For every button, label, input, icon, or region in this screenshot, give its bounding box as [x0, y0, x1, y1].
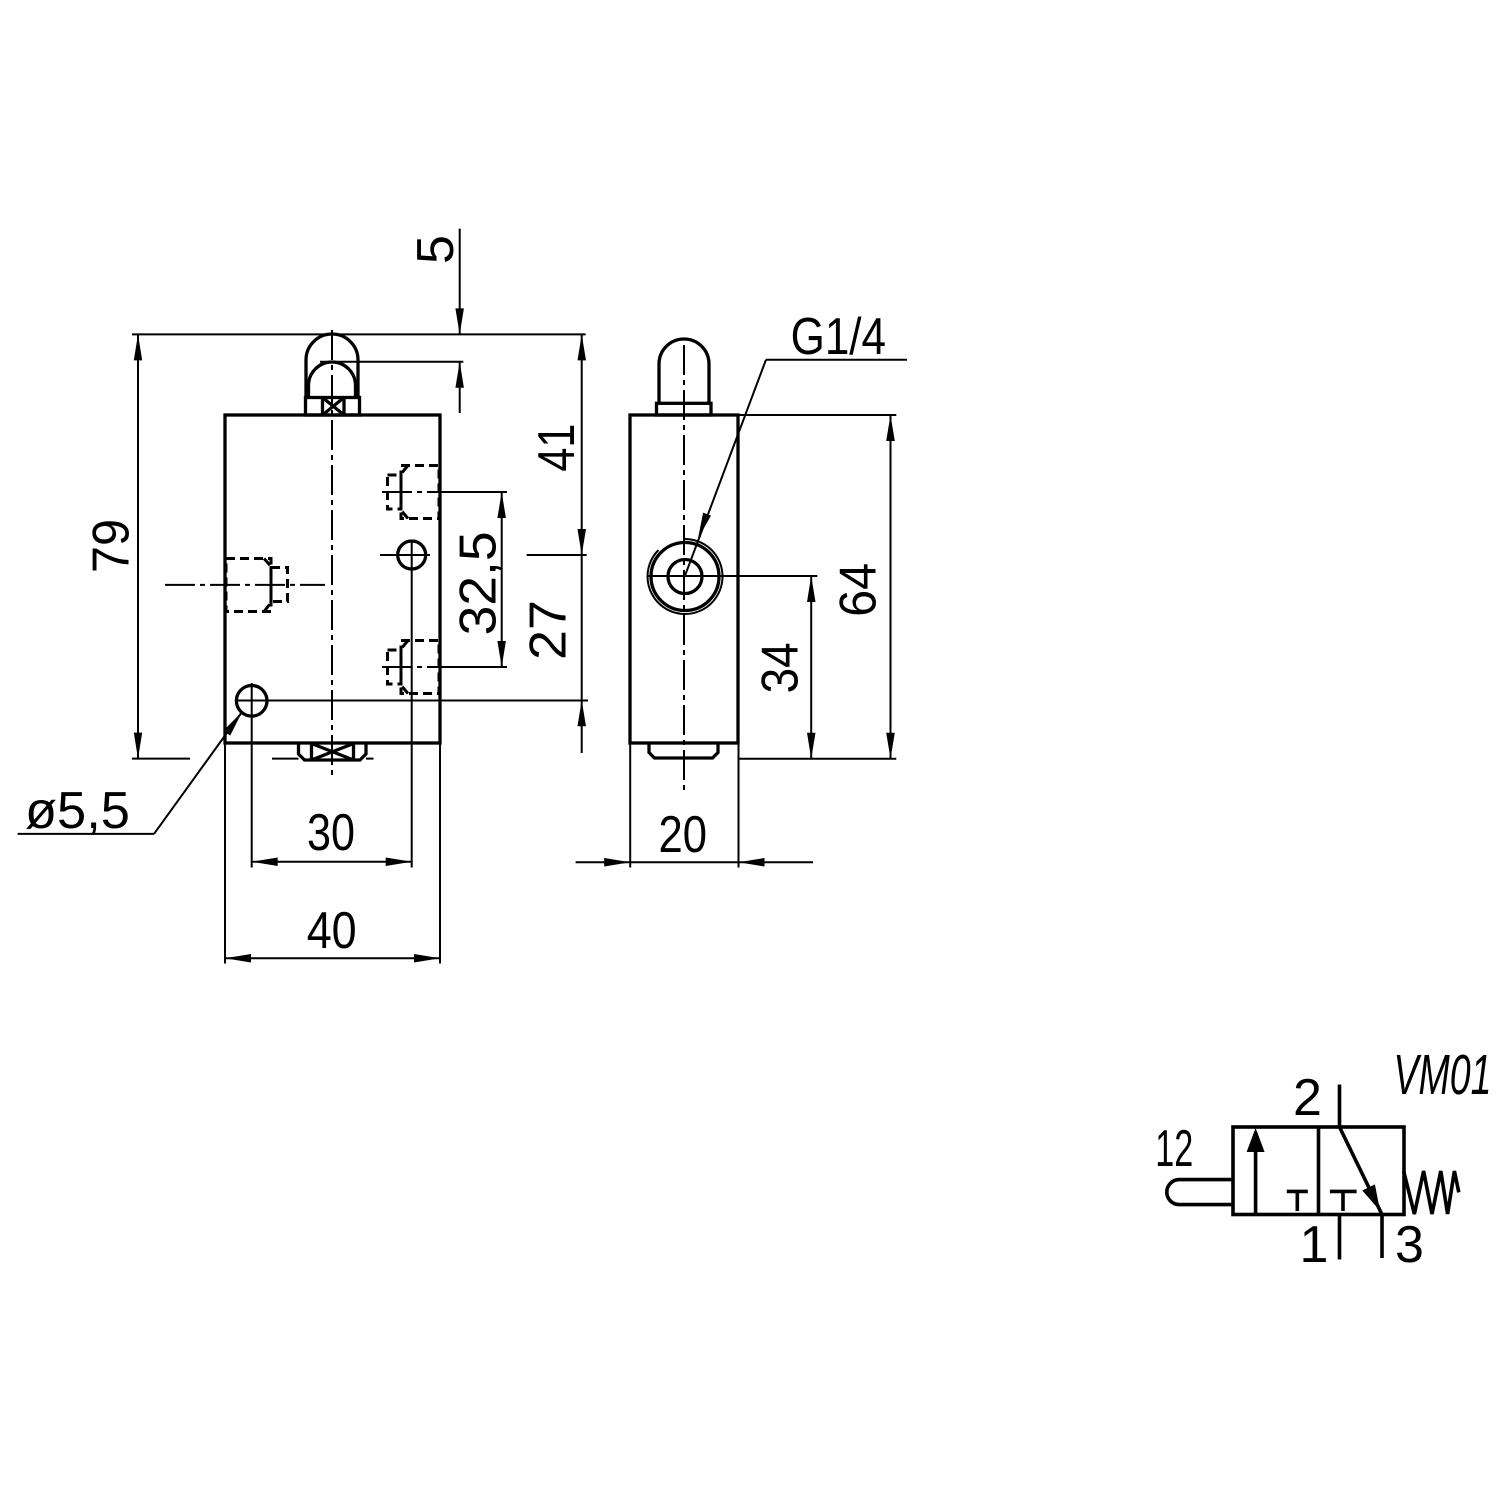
left hidden port inner box	[271, 568, 288, 602]
valve symbol plunger actuator	[1167, 1180, 1233, 1205]
valve symbol left square blocked port T	[1287, 1190, 1308, 1194]
front small hole circle	[398, 541, 426, 569]
side bottom collar	[649, 744, 718, 759]
svg-text:20: 20	[659, 806, 708, 864]
front bottom collar side stubs	[272, 758, 299, 760]
valve symbol right square diagonal flow path 2-3	[1340, 1127, 1383, 1215]
dimension 41/27 extension y=555	[527, 554, 587, 556]
right port top centerline / 32.5 extension	[382, 491, 441, 493]
valve symbol port 2 line	[1338, 1085, 1342, 1128]
side port horizontal centerline / 34 extension	[648, 575, 817, 577]
mounting hole horizontal line / 27 extension	[236, 700, 588, 702]
front plunger collar	[306, 398, 360, 416]
right hidden port top chamfers	[400, 466, 408, 476]
dimension 20 extension lines	[629, 744, 631, 868]
svg-text:G1/4: G1/4	[791, 308, 886, 366]
svg-text:12: 12	[1155, 1120, 1193, 1178]
svg-text:ø5,5: ø5,5	[25, 782, 130, 840]
top extension line y=334	[132, 333, 586, 335]
right hidden port top outer box	[401, 466, 439, 519]
front plunger outer dome	[306, 334, 358, 398]
front bottom collar X-box	[310, 744, 313, 761]
dimension 30 line	[252, 861, 412, 863]
dimension 5 line upper	[459, 229, 461, 335]
svg-text:3: 3	[1395, 1216, 1424, 1274]
side port G1/4 outer circle	[651, 543, 719, 611]
front small hole crosshair + 30 extension line	[380, 554, 430, 556]
right port bottom centerline / 32.5 extension	[382, 666, 441, 668]
left hidden port chamfers	[264, 559, 272, 568]
left hidden port outer box	[226, 559, 271, 612]
side view body outline	[630, 415, 738, 743]
svg-text:64: 64	[830, 563, 888, 617]
valve symbol port 1 line	[1338, 1215, 1342, 1260]
right hidden port bottom outer box	[401, 641, 439, 694]
svg-text:1: 1	[1300, 1216, 1329, 1274]
right hidden port top inner box	[388, 475, 402, 509]
label o5,5 leader diagonal	[154, 712, 242, 834]
front plunger collar X-box	[321, 398, 324, 416]
front bottom collar	[299, 744, 367, 761]
valve symbol port 3 line	[1380, 1215, 1384, 1259]
dimension 64 line	[890, 415, 892, 759]
valve symbol spring	[1404, 1171, 1459, 1214]
svg-text:VM01: VM01	[1394, 1043, 1492, 1107]
label o5,5 leader underline	[18, 833, 154, 835]
front plunger inner dome (5mm stroke line)	[309, 362, 356, 398]
dimension 41 line	[581, 334, 583, 555]
dimension 79 bottom extension	[132, 758, 190, 760]
dimension 32,5 line	[501, 492, 503, 667]
dimension 79 line	[137, 334, 139, 758]
label G1/4 leader diagonal	[685, 360, 766, 577]
dimension 27 line	[581, 555, 583, 753]
mounting hole circle o5.5	[236, 686, 267, 717]
side view vertical centerline	[683, 345, 685, 790]
svg-text:41: 41	[528, 424, 586, 472]
front view vertical centerline	[331, 330, 333, 776]
label G1/4 underline	[766, 359, 907, 361]
side plunger collar	[657, 403, 712, 415]
valve symbol left square flow arrow	[1254, 1132, 1258, 1213]
side port G1/4 thread arc	[648, 539, 723, 614]
front view body outline	[225, 415, 440, 743]
svg-text:79: 79	[83, 519, 141, 573]
valve symbol divider	[1317, 1127, 1321, 1215]
svg-text:40: 40	[307, 902, 357, 960]
side port G1/4 inner circle	[668, 560, 702, 594]
svg-text:27: 27	[520, 600, 578, 660]
extension line y=361.8 (5mm)	[320, 361, 463, 363]
right hidden port bottom inner box	[388, 650, 402, 684]
mounting hole vertical / 30 extension	[251, 683, 253, 868]
svg-text:5: 5	[407, 235, 465, 264]
dimension 40 extension lines	[224, 744, 226, 964]
svg-text:34: 34	[751, 642, 809, 693]
right hidden port bottom chamfers	[400, 641, 408, 651]
dimension 5 line lower tail	[459, 362, 461, 413]
dimension 20 line with outside arrows	[576, 861, 631, 863]
svg-text:2: 2	[1293, 1069, 1322, 1127]
valve symbol body boxes	[1233, 1127, 1404, 1215]
valve symbol right square blocked port T	[1330, 1190, 1357, 1194]
side plunger dome	[659, 339, 709, 403]
left port centerline	[165, 584, 325, 586]
dimension 40 line	[225, 957, 440, 959]
dimension 64 top extension	[738, 414, 896, 416]
dimension 34 line	[810, 576, 812, 759]
dimension 64/34 bottom extension	[738, 758, 896, 760]
svg-text:32,5: 32,5	[450, 531, 508, 635]
svg-text:30: 30	[307, 804, 355, 862]
